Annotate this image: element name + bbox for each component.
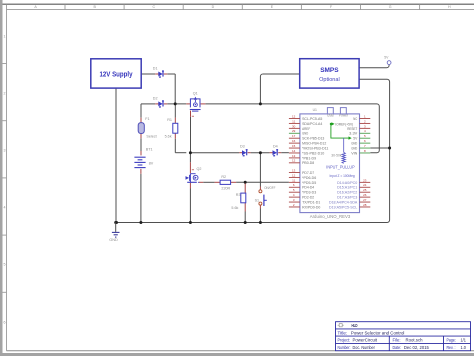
svg-text:Q1: Q1	[193, 91, 198, 95]
svg-text:D18:A4/PC4-SDA: D18:A4/PC4-SDA	[329, 200, 358, 204]
svg-text:6: 6	[4, 320, 6, 324]
svg-text:HLD: HLD	[352, 323, 358, 328]
svg-text:Page:: Page:	[447, 338, 456, 343]
svg-text:28: 28	[363, 203, 367, 207]
svg-text:GND: GND	[351, 146, 357, 150]
svg-text:R1: R1	[167, 118, 172, 122]
svg-text:GND: GND	[109, 237, 118, 242]
svg-text:26: 26	[363, 193, 367, 197]
svg-text:D: D	[212, 5, 215, 9]
svg-text:GND: GND	[302, 132, 308, 136]
svg-text:D14:A0/PC0: D14:A0/PC0	[337, 181, 357, 185]
svg-text:D1: D1	[153, 67, 158, 71]
svg-text:IOREF(+5V): IOREF(+5V)	[335, 122, 353, 126]
svg-text:D4: D4	[273, 145, 278, 149]
svg-text:BT1: BT1	[146, 148, 153, 152]
svg-text:5.6k: 5.6k	[165, 135, 172, 139]
svg-text:24: 24	[363, 183, 367, 187]
svg-text:3: 3	[4, 148, 6, 152]
svg-text:12V Supply: 12V Supply	[100, 72, 133, 79]
svg-text:RX/PD0-D0: RX/PD0-D0	[302, 205, 320, 209]
svg-text:23: 23	[363, 178, 367, 182]
svg-text:MISO-PB4-D12: MISO-PB4-D12	[302, 142, 326, 146]
svg-text:Title:: Title:	[338, 330, 348, 335]
svg-text:29: 29	[292, 129, 296, 133]
svg-text:*MOSI-PB3-D11: *MOSI-PB3-D11	[302, 146, 328, 150]
svg-text:12: 12	[292, 159, 296, 163]
svg-text:F1: F1	[145, 117, 149, 121]
svg-text:Input Z = 100Meg: Input Z = 100Meg	[330, 174, 355, 178]
svg-text:D3: D3	[240, 145, 245, 149]
svg-text:Dec 02, 2015: Dec 02, 2015	[404, 345, 430, 350]
svg-text:13: 13	[292, 168, 296, 172]
svg-text:*PD5-D5: *PD5-D5	[302, 181, 316, 185]
svg-text:INPUT_PULLUP: INPUT_PULLUP	[326, 165, 355, 170]
svg-text:5V: 5V	[384, 56, 389, 60]
svg-text:14: 14	[292, 149, 296, 153]
svg-text:D2: D2	[153, 96, 158, 100]
svg-text:*SS-PB2-D10: *SS-PB2-D10	[302, 151, 324, 155]
svg-text:*PD3-D3: *PD3-D3	[302, 191, 316, 195]
svg-text:1: 1	[4, 34, 6, 38]
svg-text:PD2-D2: PD2-D2	[302, 196, 314, 200]
svg-text:Select: Select	[146, 135, 156, 139]
svg-text:NC: NC	[353, 117, 357, 121]
svg-text:16: 16	[292, 139, 296, 143]
svg-text:SCK-PB5-D13: SCK-PB5-D13	[302, 137, 324, 141]
svg-text:D15:A1/PC1: D15:A1/PC1	[337, 186, 357, 190]
svg-text:2: 2	[4, 91, 6, 95]
svg-text:1/1: 1/1	[461, 338, 467, 343]
svg-text:PD4-D4: PD4-D4	[302, 186, 314, 190]
svg-text:Project:: Project:	[338, 338, 351, 343]
svg-text:15: 15	[292, 144, 296, 148]
svg-text:*PD6-D6: *PD6-D6	[302, 176, 316, 180]
svg-text:S1: S1	[255, 199, 260, 203]
svg-text:Root.sch: Root.sch	[406, 338, 424, 343]
svg-text:13: 13	[292, 154, 296, 158]
svg-text:SDA/PC4-A4: SDA/PC4-A4	[302, 122, 322, 126]
svg-text:SMPS: SMPS	[320, 67, 339, 74]
svg-text:C: C	[152, 5, 155, 9]
svg-text:PB0-D8: PB0-D8	[302, 161, 314, 165]
svg-text:PowerCircuit: PowerCircuit	[353, 338, 378, 343]
svg-text:Q2: Q2	[197, 167, 202, 171]
svg-text:R2: R2	[221, 175, 226, 179]
svg-text:1.0: 1.0	[461, 345, 467, 350]
svg-text:8V: 8V	[149, 161, 154, 165]
svg-text:Power: Power	[339, 114, 349, 118]
svg-text:5V: 5V	[353, 137, 357, 141]
svg-text:5.6k: 5.6k	[231, 206, 238, 210]
svg-text:12: 12	[292, 114, 296, 118]
svg-text:RESET: RESET	[347, 127, 358, 131]
svg-text:VIN: VIN	[351, 151, 357, 155]
svg-text:220R: 220R	[221, 187, 230, 191]
svg-text:12: 12	[292, 173, 296, 177]
svg-text:30-50k: 30-50k	[331, 153, 342, 157]
svg-text:11: 11	[292, 178, 295, 182]
svg-text:File:: File:	[393, 338, 401, 343]
svg-text:25: 25	[363, 188, 367, 192]
svg-text:GND: GND	[351, 142, 357, 146]
svg-text:R3: R3	[236, 193, 241, 197]
svg-text:Arduino_UNO_REV3: Arduino_UNO_REV3	[310, 214, 351, 219]
svg-text:3.3V: 3.3V	[349, 132, 358, 136]
svg-text:17: 17	[292, 134, 296, 138]
svg-text:Doc. Number: Doc. Number	[353, 345, 376, 350]
svg-text:*PB1-D9: *PB1-D9	[302, 156, 316, 160]
svg-text:D17:A3/PC3: D17:A3/PC3	[337, 196, 357, 200]
svg-text:Rev. :: Rev. :	[447, 345, 456, 350]
svg-text:USB: USB	[327, 114, 334, 118]
svg-text:11: 11	[292, 119, 295, 123]
svg-text:H: H	[448, 5, 451, 9]
svg-text:TX/PD1-D1: TX/PD1-D1	[302, 200, 320, 204]
svg-text:SCL-PC5-A5: SCL-PC5-A5	[302, 117, 322, 121]
svg-text:Date:: Date:	[393, 345, 402, 350]
svg-text:AREF: AREF	[302, 127, 311, 131]
svg-text:ON/OFF: ON/OFF	[264, 186, 276, 190]
svg-text:30: 30	[292, 124, 296, 128]
svg-text:U1: U1	[313, 108, 317, 112]
svg-text:Optional: Optional	[319, 77, 340, 83]
svg-text:Power Selector and Control: Power Selector and Control	[351, 330, 405, 335]
svg-text:G: G	[389, 5, 392, 9]
svg-text:Number:: Number:	[338, 345, 351, 350]
svg-text:PD7-D7: PD7-D7	[302, 171, 314, 175]
svg-text:5: 5	[4, 262, 6, 266]
svg-text:D16:A2/PC2: D16:A2/PC2	[337, 191, 357, 195]
svg-text:D19:A5/PC5-SCL: D19:A5/PC5-SCL	[329, 205, 357, 209]
svg-text:4: 4	[4, 205, 6, 209]
svg-text:27: 27	[363, 198, 367, 202]
